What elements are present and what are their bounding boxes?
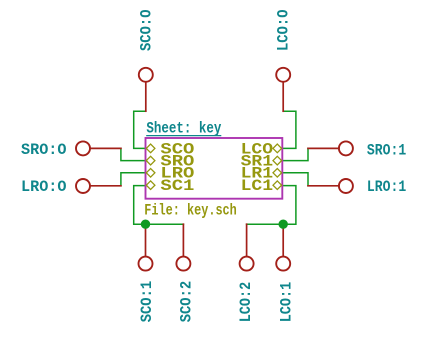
svg-text:File: key.sch: File: key.sch	[144, 202, 237, 220]
svg-text:Sheet: key: Sheet: key	[146, 120, 221, 138]
svg-text:SRO:1: SRO:1	[367, 141, 406, 159]
svg-text:SRO:O: SRO:O	[21, 141, 67, 159]
svg-text:LCO:1: LCO:1	[278, 282, 296, 323]
svg-text:LRO:1: LRO:1	[367, 178, 406, 196]
svg-text:SCO:2: SCO:2	[178, 281, 196, 323]
svg-text:LRO:O: LRO:O	[21, 178, 67, 196]
svg-text:LCO:O: LCO:O	[274, 9, 292, 51]
svg-text:SCO:1: SCO:1	[138, 281, 156, 323]
svg-text:LCO:2: LCO:2	[237, 282, 255, 323]
svg-text:SC1: SC1	[160, 177, 194, 195]
svg-text:SCO:O: SCO:O	[137, 9, 155, 51]
svg-text:LC1: LC1	[241, 177, 274, 195]
